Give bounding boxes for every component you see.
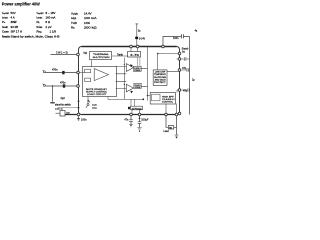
svg-text:stand-by switch: stand-by switch	[55, 103, 72, 106]
svg-text:47µ: 47µ	[183, 89, 188, 92]
svg-text:200 kΩ: 200 kΩ	[84, 26, 98, 30]
svg-text:mute: mute	[92, 103, 98, 106]
svg-text:8Ω: 8Ω	[169, 128, 172, 130]
svg-text:LOGIC CIRCUIT: LOGIC CIRCUIT	[87, 94, 107, 96]
svg-text:4 A: 4 A	[11, 16, 15, 20]
svg-text:Stand-by switch, Mute, Class H: Stand-by switch, Mute, Class H-B	[11, 34, 60, 38]
svg-text:Case: Case	[2, 30, 9, 34]
svg-text:47kΩ: 47kΩ	[132, 108, 143, 110]
svg-text:1µ: 1µ	[192, 79, 195, 81]
svg-text:Gain: Gain	[2, 25, 8, 29]
svg-text:Iotyp: Iotyp	[71, 16, 77, 20]
svg-text:Rthjc: Rthjc	[37, 30, 42, 34]
svg-text:Vsupmax: Vsupmax	[2, 11, 9, 15]
svg-text:THERMAL: THERMAL	[93, 53, 110, 56]
svg-text:CONTROL: CONTROL	[162, 102, 173, 104]
svg-text:Iomax: Iomax	[2, 16, 8, 20]
svg-text:2 µV: 2 µV	[46, 25, 52, 29]
svg-text:160 mA: 160 mA	[46, 16, 56, 20]
svg-text:Po: Po	[2, 20, 6, 24]
svg-text:14.4V: 14.4V	[139, 37, 146, 40]
svg-text:Iomax: Iomax	[37, 16, 43, 20]
svg-text:47n: 47n	[124, 120, 129, 122]
svg-text:40W: 40W	[11, 20, 17, 24]
svg-text:STAGE: STAGE	[134, 69, 141, 72]
svg-text:Rin: Rin	[71, 26, 76, 30]
svg-text:Power amplifier 40W: Power amplifier 40W	[2, 2, 41, 7]
svg-text:50V: 50V	[11, 11, 16, 15]
svg-text:1 1/8: 1 1/8	[50, 30, 57, 34]
svg-text:8 Ω: 8 Ω	[46, 20, 51, 24]
svg-text:STAGE: STAGE	[135, 86, 142, 89]
svg-text:4.7k: 4.7k	[130, 55, 141, 57]
svg-text:470n: 470n	[52, 69, 58, 72]
svg-text:Remarks: Remarks	[2, 34, 10, 38]
svg-text:RL: RL	[37, 20, 41, 24]
svg-text:TM: TM	[83, 52, 87, 55]
svg-text:8 – 18V: 8 – 18V	[46, 11, 56, 15]
svg-text:2a: 2a	[138, 31, 141, 33]
svg-text:470n: 470n	[60, 82, 66, 85]
svg-text:Vsupopt: Vsupopt	[37, 11, 44, 15]
svg-text:by: by	[182, 51, 185, 54]
svg-text:AND DIAG: AND DIAG	[155, 78, 167, 81]
svg-text:PROTECT.: PROTECT.	[154, 82, 167, 84]
svg-text:Noise: Noise	[37, 25, 43, 29]
svg-text:4a: 4a	[195, 31, 198, 33]
svg-text:10%: 10%	[84, 21, 90, 25]
svg-text:30 dB: 30 dB	[11, 25, 19, 29]
svg-text:st-by: st-by	[92, 107, 98, 110]
svg-text:100 mA: 100 mA	[84, 16, 97, 20]
svg-text:CLASS-H: CLASS-H	[162, 98, 176, 101]
svg-text:Voptyp: Voptyp	[71, 11, 78, 15]
svg-text:2µ2: 2µ2	[61, 97, 66, 100]
svg-text:Pₖ: Pₖ	[88, 101, 91, 103]
svg-text:MUTE STAND-BY: MUTE STAND-BY	[86, 88, 108, 91]
svg-text:100n: 100n	[173, 37, 179, 40]
svg-text:Tamb: Tamb	[117, 53, 124, 56]
svg-text:100n: 100n	[81, 119, 87, 122]
svg-text:SHUTDOWN: SHUTDOWN	[93, 57, 111, 59]
svg-text:SIP 17 H: SIP 17 H	[11, 30, 23, 34]
svg-text:Load: Load	[164, 131, 170, 133]
svg-text:100µF: 100µF	[141, 118, 149, 121]
svg-text:TEMPERAT.: TEMPERAT.	[154, 73, 167, 76]
svg-text:3 W 1 = St: 3 W 1 = St	[56, 51, 68, 54]
svg-text:mute on: mute on	[55, 108, 64, 111]
svg-text:14.4V: 14.4V	[84, 11, 92, 15]
svg-text:THD: THD	[71, 21, 77, 25]
svg-text:47µ: 47µ	[182, 67, 187, 70]
